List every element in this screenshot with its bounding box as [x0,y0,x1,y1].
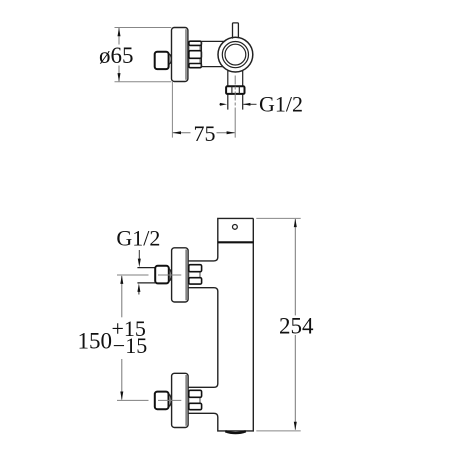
svg-text:G1/2: G1/2 [259,92,303,117]
svg-text:254: 254 [279,313,314,338]
svg-text:150: 150 [78,329,113,354]
svg-text:G1/2: G1/2 [116,226,160,251]
svg-text:75: 75 [194,121,216,146]
svg-text:−15: −15 [113,333,147,358]
svg-text:ø65: ø65 [99,43,134,68]
